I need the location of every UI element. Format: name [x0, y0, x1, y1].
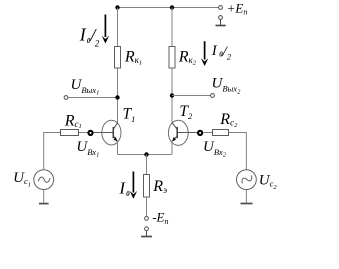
wire Rk1 to T1 collector [117, 68, 119, 123]
svg-text:2: 2 [227, 51, 232, 61]
arrow current Io/2 left [102, 15, 109, 44]
svg-text:I: I [211, 43, 218, 59]
wire Rk2 to T2 collector [171, 68, 173, 123]
wire emitter node to Re [146, 155, 148, 175]
wire source1 to ground [43, 190, 45, 204]
connector input node 2 [198, 131, 202, 135]
svg-text:2: 2 [95, 38, 100, 48]
ground below -En terminal [141, 227, 152, 237]
ground under Uc2 [241, 203, 253, 205]
wire top power rail [118, 7, 219, 9]
wire emitter bus [118, 154, 173, 156]
wire Rc2 to source2 [229, 133, 247, 170]
terminal Uout2 [211, 94, 215, 98]
wire T2 base to input node 2 [203, 132, 212, 134]
transistor T1 [94, 120, 121, 145]
node junction tap1 [115, 95, 119, 99]
wire source2 to ground [245, 190, 247, 204]
source Uc1 [34, 170, 54, 190]
resistor Rc1 [61, 130, 79, 136]
wire Re to -En terminal [146, 197, 148, 217]
arrow current Io/2 right [201, 41, 208, 66]
svg-text:I: I [79, 25, 87, 45]
node junction top-right [170, 5, 174, 9]
wire Rc1 to input node 1 [79, 132, 88, 134]
transistor T2 [168, 120, 197, 145]
ground below +En terminal [216, 16, 226, 26]
terminal -En [145, 217, 149, 221]
arrow current Io [130, 172, 137, 199]
svg-text:0: 0 [126, 190, 130, 198]
resistor Rk2 [169, 47, 175, 69]
terminal Uout1 [64, 96, 68, 100]
source Uc2 [237, 170, 257, 190]
wire source1 to Rc1 [44, 133, 61, 170]
wire output tap 1 [68, 97, 118, 99]
ground under Uc1 [39, 203, 49, 205]
resistor Rk1 [115, 47, 121, 69]
wire output tap 2 [172, 95, 211, 97]
terminal +En [219, 6, 223, 10]
node junction emitter [144, 152, 148, 156]
resistor Re [144, 175, 150, 198]
wire T2 emitter down [171, 142, 173, 155]
node junction tap2 [170, 93, 174, 97]
wire right branch collector drop [171, 8, 173, 47]
wire T1 emitter down [117, 142, 119, 155]
node junction top-left [115, 5, 119, 9]
connector input node 1 [88, 131, 92, 135]
resistor Rc2 [213, 130, 229, 136]
wire left branch collector drop [117, 8, 119, 47]
